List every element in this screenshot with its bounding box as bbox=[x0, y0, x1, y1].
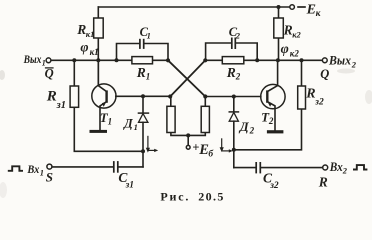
svg-text:1: 1 bbox=[146, 71, 151, 81]
svg-text:R: R bbox=[136, 65, 146, 80]
svg-text:2: 2 bbox=[351, 59, 357, 69]
svg-text:S: S bbox=[46, 170, 53, 185]
svg-text:R: R bbox=[283, 23, 293, 38]
svg-text:R: R bbox=[305, 87, 315, 102]
svg-text:к1: к1 bbox=[90, 47, 99, 57]
svg-text:Вх: Вх bbox=[27, 162, 40, 176]
svg-text:1: 1 bbox=[40, 167, 44, 177]
svg-text:φ: φ bbox=[281, 42, 289, 57]
svg-text:20.5: 20.5 bbox=[198, 190, 225, 204]
svg-text:1: 1 bbox=[147, 30, 151, 40]
svg-text:2: 2 bbox=[235, 31, 241, 41]
svg-text:2: 2 bbox=[268, 116, 274, 126]
svg-text:Вых: Вых bbox=[23, 52, 42, 66]
svg-text:к2: к2 bbox=[292, 29, 301, 39]
svg-text:з2: з2 bbox=[314, 98, 324, 108]
svg-text:Д: Д bbox=[123, 116, 133, 130]
svg-text:Е: Е bbox=[306, 3, 316, 18]
svg-text:з2: з2 bbox=[269, 181, 279, 191]
svg-text:к1: к1 bbox=[86, 29, 95, 39]
svg-text:Рис.: Рис. bbox=[160, 190, 190, 204]
svg-text:2: 2 bbox=[249, 126, 255, 136]
svg-text:1: 1 bbox=[108, 116, 113, 126]
svg-text:к2: к2 bbox=[290, 48, 300, 58]
svg-text:R: R bbox=[46, 88, 57, 104]
svg-text:R: R bbox=[226, 65, 236, 80]
svg-text:Q: Q bbox=[45, 67, 54, 81]
svg-text:φ: φ bbox=[80, 40, 88, 55]
svg-text:2: 2 bbox=[235, 71, 241, 81]
svg-text:з1: з1 bbox=[56, 100, 66, 111]
svg-text:Вх: Вх bbox=[329, 160, 343, 174]
svg-text:R: R bbox=[318, 174, 328, 189]
svg-text:Д: Д bbox=[239, 119, 250, 134]
svg-text:Q: Q bbox=[320, 67, 329, 81]
svg-text:Вых: Вых bbox=[328, 53, 351, 67]
svg-text:1: 1 bbox=[134, 122, 138, 132]
svg-text:з1: з1 bbox=[125, 180, 134, 190]
svg-text:2: 2 bbox=[342, 166, 348, 176]
